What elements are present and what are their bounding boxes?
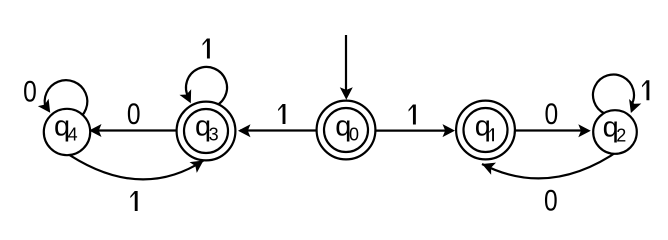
- arrowhead: q0 to q1: [443, 124, 456, 137]
- edge label 1 (q0 to q3): [278, 104, 285, 124]
- svg-text:0: 0: [23, 74, 37, 108]
- wire: start arrow into q0: [345, 35, 347, 92]
- self-loop on q4: [45, 80, 88, 121]
- wire: curved edge q4 to q3: [62, 150, 204, 179]
- wire: edge q1 to q2: [515, 129, 587, 131]
- arrowhead: q4 self-loop: [38, 99, 56, 117]
- arrowhead: q1 to q2: [578, 124, 591, 137]
- wire: edge q0 to q3: [240, 129, 317, 131]
- state q2: [593, 110, 637, 154]
- svg-text:0: 0: [544, 97, 558, 131]
- svg-text:0: 0: [544, 183, 558, 217]
- arrowhead: q4 to q3 curve: [190, 155, 208, 173]
- state q0 (double circle): [317, 101, 376, 160]
- wire: edge q3 to q4: [95, 129, 177, 131]
- arrowhead: q3 self-loop: [179, 89, 196, 106]
- wire: curved edge q2 to q1: [482, 149, 621, 178]
- self-loop on q2: [593, 75, 634, 114]
- svg-text:0: 0: [127, 97, 141, 131]
- arrowhead: q2 self-loop: [625, 99, 641, 115]
- arrowhead: start arrow tip at q0 top: [340, 87, 353, 100]
- arrowhead: q3 to q4: [89, 124, 102, 137]
- svg-text:q: q: [475, 110, 491, 142]
- wire: edge q0 to q1: [375, 130, 450, 132]
- state q1 (accepting, double circle): [456, 101, 515, 160]
- edge label 1 (q4 to q3 curve): [130, 191, 137, 211]
- edge label 1 (q2 self-loop): [642, 80, 649, 100]
- self-loop on q3: [186, 67, 227, 107]
- arrowhead: q2 to q1 curve: [480, 158, 496, 175]
- edge label 1 (q3 self-loop): [203, 39, 210, 59]
- state q3 (accepting, double circle): [177, 102, 236, 161]
- edge label 1 (q0 to q1): [409, 105, 416, 125]
- state q4: [44, 109, 90, 155]
- arrowhead: q0 to q3: [238, 124, 251, 137]
